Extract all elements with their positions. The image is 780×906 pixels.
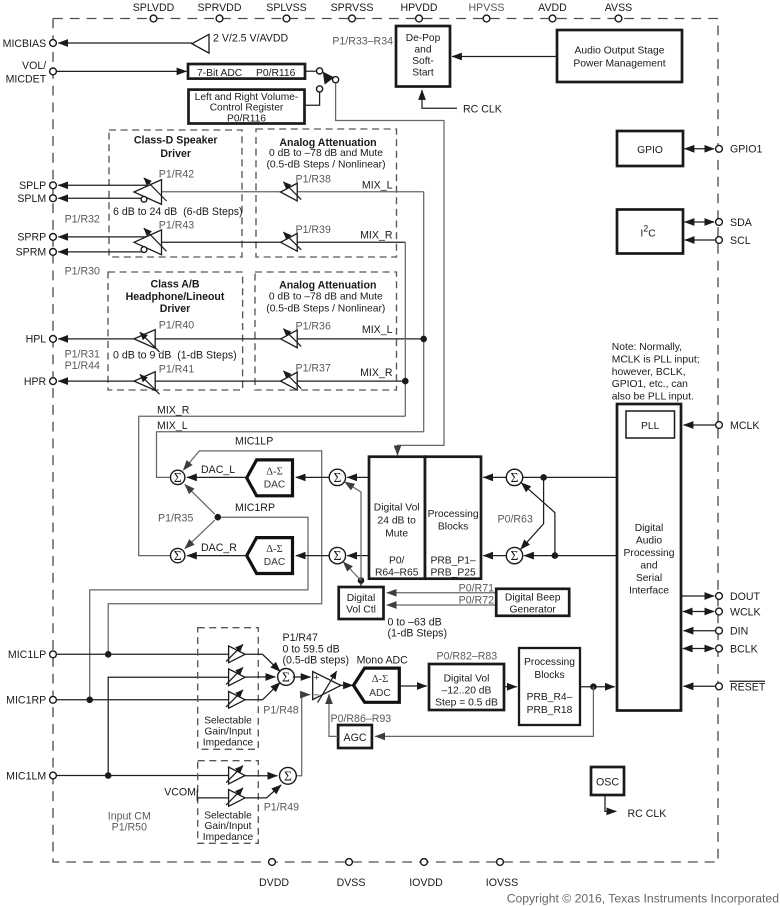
pin MIC1RP — [50, 696, 57, 703]
wire MIC1LM to amp2 — [108, 677, 228, 775]
svg-text:MIX_R: MIX_R — [360, 367, 393, 379]
svg-text:Δ-Σ: Δ-Σ — [266, 466, 283, 477]
section box Selectable Gain/Input Impedance 1 — [198, 628, 259, 750]
pin HPR — [50, 378, 57, 385]
class-d amp P1/R43 — [134, 230, 162, 255]
wire amp2 to sum — [245, 676, 275, 678]
block 7-Bit ADC P0/R116 — [188, 64, 305, 79]
svg-text:Σ: Σ — [174, 548, 182, 563]
wire OSC RC CLK — [605, 795, 616, 811]
svg-text:Σ: Σ — [333, 470, 341, 485]
svg-text:P1/R40: P1/R40 — [159, 320, 194, 332]
wire MIC1RP to left mixer — [185, 484, 215, 514]
pin MIC1LM — [50, 772, 57, 779]
svg-text:MIX_R: MIX_R — [157, 404, 190, 416]
svg-text:P0/R86–R93: P0/R86–R93 — [331, 713, 392, 725]
svg-text:P0/: P0/ — [389, 556, 405, 567]
svg-text:P1/R32: P1/R32 — [65, 214, 100, 226]
svg-text:(1-dB Steps): (1-dB Steps) — [388, 628, 447, 640]
svg-text:Driver: Driver — [160, 148, 191, 160]
svg-text:De-Pop: De-Pop — [406, 33, 441, 44]
svg-text:Audio: Audio — [636, 536, 663, 547]
mic amp 5 — [229, 790, 246, 807]
svg-text:P1/R41: P1/R41 — [159, 364, 194, 376]
svg-text:DIN: DIN — [730, 626, 748, 638]
svg-text:MIC1RP: MIC1RP — [235, 502, 275, 514]
svg-text:Gain/Input: Gain/Input — [204, 821, 251, 832]
wire sum to processing blocks right — [483, 555, 506, 557]
adc delta-sigma Mono ADC — [354, 668, 400, 702]
block I2C — [617, 210, 683, 254]
wire SCL — [685, 239, 716, 241]
mic amp 3 — [229, 691, 246, 708]
wire pga to adc — [341, 684, 353, 686]
pin RESET — [716, 683, 723, 690]
svg-text:Control Register: Control Register — [210, 103, 284, 114]
svg-text:Gain/Input: Gain/Input — [204, 726, 251, 737]
mic sum P1/R47 — [278, 669, 295, 686]
svg-text:P1/R43: P1/R43 — [159, 219, 194, 231]
svg-text:Power Management: Power Management — [573, 59, 665, 70]
svg-text:HPL: HPL — [26, 334, 47, 346]
mic amp 2 — [229, 669, 246, 686]
svg-text:(0.5-dB Steps / Nonlinear): (0.5-dB Steps / Nonlinear) — [266, 160, 385, 171]
svg-text:MIC1LM: MIC1LM — [6, 770, 46, 782]
wire mic sum2 to pga minus — [296, 695, 311, 776]
svg-text:Soft-: Soft- — [412, 56, 434, 67]
wire MICBIAS — [58, 42, 192, 44]
svg-text:SPLVSS: SPLVSS — [266, 2, 306, 14]
svg-text:Impedance: Impedance — [203, 737, 254, 748]
wire beep P0/R72 — [387, 604, 496, 606]
svg-text:P0/R116: P0/R116 — [227, 113, 266, 124]
switch volume source select — [317, 68, 323, 74]
svg-text:DAC: DAC — [264, 557, 286, 568]
dac delta-sigma DAC_R — [247, 538, 293, 574]
attenuator P1/R37 — [281, 372, 298, 390]
outer dashed supply/IO boundary — [53, 19, 718, 863]
svg-text:0 dB to 9 dB (1-dB Steps): 0 dB to 9 dB (1-dB Steps) — [113, 349, 237, 361]
svg-text:Δ-Σ: Δ-Σ — [372, 674, 389, 685]
svg-text:Left and Right Volume-: Left and Right Volume- — [195, 92, 299, 103]
wire AGC to pga — [329, 694, 338, 736]
svg-text:Driver: Driver — [160, 303, 191, 315]
svg-text:P0/R63: P0/R63 — [498, 514, 533, 526]
svg-text:PRB_R18: PRB_R18 — [527, 705, 573, 716]
wire MIC1LP — [57, 653, 229, 655]
wire ADC to switch — [305, 70, 316, 72]
svg-text:DAC_L: DAC_L — [201, 464, 235, 476]
block Audio Output Stage Power Management — [557, 30, 682, 82]
pin MICBIAS — [50, 40, 57, 47]
svg-text:Digital Vol: Digital Vol — [444, 673, 490, 684]
pin HPL — [50, 336, 57, 343]
wire amp5 to sum2 — [245, 785, 281, 798]
svg-text:MICDET: MICDET — [6, 74, 47, 86]
block Digital Vol -12..20 dB — [429, 664, 504, 710]
wire GPIO bidirectional — [685, 148, 715, 150]
wire beep P0/R71 — [387, 592, 496, 594]
svg-text:Selectable: Selectable — [204, 810, 252, 821]
svg-text:Processing: Processing — [428, 509, 479, 520]
svg-text:AVSS: AVSS — [605, 2, 632, 14]
section box Analog Attenuation (headphone) — [255, 272, 397, 390]
svg-text:Serial: Serial — [636, 573, 662, 584]
wire MIX_L to hp input — [155, 338, 424, 340]
svg-text:OSC: OSC — [596, 777, 619, 789]
mixer sum left — [171, 470, 185, 484]
svg-text:SPLP: SPLP — [19, 180, 46, 192]
wire amp1 to sum — [245, 654, 280, 671]
svg-text:Δ-Σ: Δ-Σ — [266, 544, 283, 555]
hp amp P1/R40 — [134, 330, 155, 349]
svg-text:SPLVDD: SPLVDD — [133, 2, 175, 14]
svg-text:SPRM: SPRM — [16, 247, 47, 259]
block De-Pop and Soft-Start — [396, 26, 450, 87]
svg-text:Processing: Processing — [524, 657, 575, 668]
svg-text:DOUT: DOUT — [730, 591, 761, 603]
pin SPRP — [50, 234, 57, 241]
svg-text:Step = 0.5 dB: Step = 0.5 dB — [435, 698, 498, 709]
wire RC CLK to de-pop — [422, 90, 457, 108]
svg-text:AVDD: AVDD — [538, 2, 567, 14]
wire VOL/MICDET to ADC — [57, 70, 187, 72]
svg-text:P1/R36: P1/R36 — [296, 320, 331, 332]
svg-text:Vol Ctl: Vol Ctl — [346, 605, 376, 616]
svg-text:SDA: SDA — [730, 217, 753, 229]
svg-text:Input CM: Input CM — [108, 811, 151, 823]
wire sum to DAC_L — [296, 476, 329, 478]
svg-text:DAC_R: DAC_R — [201, 542, 237, 554]
svg-text:PLL: PLL — [641, 421, 660, 432]
supply pin IOVSS — [497, 859, 504, 866]
wire MIX_L to class-d input — [162, 191, 424, 193]
svg-text:Mono ADC: Mono ADC — [357, 655, 409, 667]
svg-text:BCLK: BCLK — [730, 643, 758, 655]
wire BCLK bidirectional — [683, 648, 714, 650]
svg-text:SCL: SCL — [730, 235, 751, 247]
svg-text:and: and — [415, 45, 432, 56]
svg-text:DAC: DAC — [264, 480, 286, 491]
svg-text:MIX_R: MIX_R — [360, 229, 393, 241]
wire switch to digital vol box — [336, 83, 444, 455]
wire VCOM to amp5 — [197, 797, 228, 799]
svg-text:Headphone/Lineout: Headphone/Lineout — [126, 291, 225, 303]
wire amp3 to sum — [245, 682, 280, 699]
svg-text:–12..20 dB: –12..20 dB — [442, 686, 492, 697]
svg-text:Processing: Processing — [624, 548, 675, 559]
block GPIO — [617, 131, 683, 166]
wire MIX_R to class-d input — [162, 241, 406, 243]
block AGC — [338, 725, 372, 748]
wire SPLM — [58, 197, 145, 199]
svg-text:PRB_R4–: PRB_R4– — [527, 692, 573, 703]
digital sum left — [329, 469, 345, 485]
svg-text:Interface: Interface — [629, 586, 669, 597]
svg-text:Σ: Σ — [511, 470, 519, 485]
svg-text:P1/R49: P1/R49 — [264, 802, 299, 814]
svg-text:Digital: Digital — [347, 593, 376, 604]
dac delta-sigma DAC_L — [247, 460, 293, 496]
wire cross left-to-right — [521, 477, 544, 549]
wire MIX_R vertical — [404, 242, 406, 416]
wire WCLK bidirectional — [683, 611, 714, 613]
supply pin DVSS — [346, 859, 353, 866]
svg-text:Copyright © 2016, Texas Instru: Copyright © 2016, Texas Instruments Inco… — [507, 892, 779, 906]
svg-text:7-Bit ADC: 7-Bit ADC — [197, 68, 243, 79]
block Digital Audio Processing and Serial Interface — [617, 404, 681, 711]
wire DAC_R to right mixer — [187, 555, 248, 557]
svg-text:Σ: Σ — [333, 548, 341, 563]
wire sum to processing blocks left — [483, 476, 506, 478]
svg-text:Blocks: Blocks — [438, 522, 468, 533]
svg-text:Σ: Σ — [282, 669, 290, 684]
wire sum to DAC_R — [296, 555, 329, 557]
mixer sum right — [171, 548, 185, 562]
digital sum right input — [506, 547, 522, 563]
svg-text:Class A/B: Class A/B — [150, 279, 199, 291]
wire vol ctl junction — [360, 581, 362, 588]
buffer amp 2V/2.5V micbias — [192, 34, 209, 53]
svg-text:P0/R82–R83: P0/R82–R83 — [437, 651, 498, 663]
svg-text:P1/R31: P1/R31 — [65, 349, 100, 361]
wire MIX_L vertical — [423, 192, 425, 432]
svg-text:MCLK is PLL input;: MCLK is PLL input; — [612, 355, 700, 366]
wire SPLP — [58, 184, 148, 186]
svg-text:P1/R33–R34: P1/R33–R34 — [332, 36, 393, 48]
mic pga amplifier — [313, 672, 341, 700]
svg-text:RESET: RESET — [730, 681, 766, 693]
section box Class A/B Headphone/Lineout Driver — [108, 272, 243, 390]
section box Analog Attenuation (speaker) — [256, 129, 397, 257]
svg-text:P0/R116: P0/R116 — [256, 68, 296, 79]
svg-text:P1/R48: P1/R48 — [263, 705, 298, 717]
svg-text:VOL/: VOL/ — [22, 60, 46, 72]
supply pin DVDD — [269, 859, 276, 866]
wire cross right-to-left — [521, 483, 555, 556]
wire amp4 to sum2 — [245, 775, 277, 777]
svg-text:GPIO: GPIO — [637, 145, 663, 156]
svg-text:Class-D Speaker: Class-D Speaker — [134, 135, 218, 147]
wire HPR — [58, 380, 134, 382]
svg-text:P0/R71: P0/R71 — [459, 582, 494, 594]
svg-text:HPVSS: HPVSS — [469, 2, 505, 14]
svg-text:GPIO1, etc., can: GPIO1, etc., can — [612, 379, 688, 390]
svg-text:2 V/2.5 V/AVDD: 2 V/2.5 V/AVDD — [213, 33, 289, 45]
svg-text:and: and — [640, 561, 657, 572]
svg-text:PRB_P1–: PRB_P1– — [430, 556, 475, 567]
svg-text:WCLK: WCLK — [730, 606, 761, 618]
svg-text:(0.5-dB steps): (0.5-dB steps) — [283, 654, 350, 666]
wire MIC1RP to right mixer — [185, 520, 215, 549]
block Left and Right Volume-Control Register — [189, 90, 305, 124]
svg-text:Selectable: Selectable — [204, 715, 252, 726]
wire MIX_R to hp input — [155, 380, 405, 382]
svg-text:MIC1LP: MIC1LP — [8, 649, 46, 661]
wire DOUT — [681, 595, 714, 597]
block OSC — [591, 767, 624, 795]
wire digital vol to processing — [504, 686, 517, 688]
svg-text:Note: Normally,: Note: Normally, — [612, 342, 682, 353]
wire MIX_R from mixer — [139, 416, 406, 555]
svg-text:6 dB to 24 dB (6-dB Steps): 6 dB to 24 dB (6-dB Steps) — [113, 206, 243, 218]
wire to AGC — [375, 687, 593, 737]
block PLL — [626, 411, 675, 438]
pin SPLP — [50, 182, 57, 189]
wire SDA bidirectional — [685, 221, 715, 223]
wire digital vol box to sum right — [347, 555, 369, 557]
svg-text:MIX_L: MIX_L — [157, 420, 188, 432]
svg-text:P1/R47: P1/R47 — [283, 632, 318, 644]
svg-text:IOVDD: IOVDD — [409, 877, 443, 889]
mic amp 4 — [229, 767, 246, 784]
svg-text:MIC1LP: MIC1LP — [235, 436, 273, 448]
svg-text:Σ: Σ — [284, 768, 292, 783]
svg-text:SPLM: SPLM — [17, 193, 46, 205]
wire MIX_L from mixer — [157, 432, 424, 478]
pin MIC1LP — [50, 651, 57, 658]
attenuator P1/R38 — [281, 183, 298, 201]
svg-text:VCOM: VCOM — [164, 787, 196, 799]
svg-text:P1/R50: P1/R50 — [112, 822, 147, 834]
wire register to switch — [305, 92, 320, 105]
wire SPRP — [58, 236, 147, 238]
svg-text:+: + — [314, 673, 320, 684]
svg-text:DVSS: DVSS — [337, 877, 366, 889]
svg-text:however, BCLK,: however, BCLK, — [612, 367, 686, 378]
svg-text:Start: Start — [412, 68, 434, 79]
wire vol ctl to sum right — [343, 562, 361, 581]
pin DIN — [716, 627, 723, 634]
hp amp P1/R41 — [134, 372, 155, 391]
svg-text:Mute: Mute — [385, 528, 408, 539]
pin SPRM — [50, 249, 57, 256]
attenuator P1/R36 — [281, 330, 298, 348]
svg-text:Audio Output Stage: Audio Output Stage — [575, 46, 665, 57]
svg-text:P0/R72: P0/R72 — [459, 595, 494, 607]
section box Class-D Speaker Driver — [109, 130, 242, 257]
wire MIC1RP — [57, 699, 229, 701]
svg-text:P1/R44: P1/R44 — [65, 360, 100, 372]
wire vol ctl to sum left — [345, 482, 361, 581]
digital sum right — [329, 547, 345, 563]
svg-text:Digital: Digital — [635, 523, 664, 534]
svg-text:R64–R65: R64–R65 — [375, 568, 419, 579]
wire SPRM — [58, 251, 145, 253]
wire digital vol box to sum left — [347, 476, 369, 478]
svg-text:also be PLL input.: also be PLL input. — [612, 391, 694, 402]
section box Selectable Gain/Input Impedance 2 — [198, 761, 259, 844]
svg-text:P1/R37: P1/R37 — [296, 363, 331, 375]
wire adc to digital vol — [399, 685, 427, 687]
block Processing Blocks PRB_R4-PRB_R18 — [519, 648, 580, 725]
svg-text:P1/R38: P1/R38 — [296, 173, 331, 185]
svg-text:P1/R30: P1/R30 — [65, 265, 100, 277]
svg-text:P1/R42: P1/R42 — [159, 169, 194, 181]
pin WCLK — [716, 608, 723, 615]
svg-text:Blocks: Blocks — [534, 670, 564, 681]
svg-text:0 dB to –78 dB and Mute: 0 dB to –78 dB and Mute — [269, 292, 383, 303]
mic amp 1 — [229, 646, 246, 663]
digital sum left input — [506, 469, 522, 485]
pin SDA — [716, 219, 723, 226]
svg-text:MICBIAS: MICBIAS — [3, 38, 47, 50]
svg-text:RC CLK: RC CLK — [628, 808, 667, 820]
svg-text:Σ: Σ — [511, 548, 519, 563]
wire RESET — [684, 685, 716, 687]
svg-text:MCLK: MCLK — [730, 420, 759, 432]
block Processing Blocks PRB_P1-PRB_P25 — [425, 457, 481, 579]
svg-text:Impedance: Impedance — [203, 832, 254, 843]
mic sum P1/R49 — [280, 767, 297, 784]
svg-text:(0.5-dB Steps / Nonlinear): (0.5-dB Steps / Nonlinear) — [266, 304, 385, 315]
svg-text:Σ: Σ — [174, 470, 182, 485]
wire MIC1RP bypass — [90, 517, 308, 700]
svg-text:AGC: AGC — [344, 732, 367, 744]
svg-text:Digital Beep: Digital Beep — [505, 592, 561, 603]
pin BCLK — [716, 645, 723, 652]
svg-text:0 dB to –78 dB and Mute: 0 dB to –78 dB and Mute — [269, 148, 383, 159]
wire MIC1LP bypass — [108, 451, 322, 654]
svg-text:P1/R39: P1/R39 — [296, 224, 331, 236]
pin SCL — [716, 237, 723, 244]
svg-text:Generator: Generator — [510, 605, 557, 616]
block Digital Vol 24 dB to Mute P0/R64-R65 — [369, 457, 425, 579]
wire power management to de-pop — [452, 56, 557, 58]
svg-text:SPRP: SPRP — [17, 232, 46, 244]
wire serial interface to sum left — [523, 476, 617, 478]
wire MIC1LM — [57, 775, 229, 777]
svg-text:SPRVDD: SPRVDD — [198, 2, 242, 14]
block Digital Beep Generator — [496, 589, 569, 616]
wire processing to serial interface — [580, 686, 615, 688]
svg-text:ADC: ADC — [369, 688, 391, 699]
wire HPL — [58, 338, 134, 340]
pin DOUT — [716, 593, 723, 600]
pin SPLM — [50, 195, 57, 202]
svg-text:HPR: HPR — [24, 376, 47, 388]
class-d amp P1/R42 — [134, 180, 162, 205]
wire DAC_L to left mixer — [187, 476, 248, 478]
svg-text:HPVDD: HPVDD — [400, 2, 437, 14]
svg-text:P1/R35: P1/R35 — [158, 513, 193, 525]
pin VOL/MICDET — [50, 68, 57, 75]
svg-text:DVDD: DVDD — [259, 877, 289, 889]
svg-text:PRB_P25: PRB_P25 — [430, 568, 475, 579]
svg-text:MIX_L: MIX_L — [362, 180, 393, 192]
pin MCLK — [716, 422, 723, 429]
wire MCLK — [684, 424, 716, 426]
supply pin IOVDD — [421, 859, 428, 866]
attenuator P1/R39 — [281, 233, 298, 251]
pin GPIO1 — [716, 145, 723, 152]
svg-text:24 dB to: 24 dB to — [378, 516, 417, 527]
svg-text:GPIO1: GPIO1 — [730, 144, 762, 156]
svg-text:RC CLK: RC CLK — [463, 104, 502, 116]
block Digital Vol Ctl — [339, 587, 384, 619]
svg-text:Digital Vol: Digital Vol — [374, 503, 420, 514]
wire sum to pga — [293, 676, 311, 678]
svg-text:MIX_L: MIX_L — [362, 324, 393, 336]
svg-text:MIC1RP: MIC1RP — [6, 695, 46, 707]
wire DIN — [684, 630, 716, 632]
wire serial interface to sum right — [524, 555, 617, 557]
svg-text:SPRVSS: SPRVSS — [331, 2, 374, 14]
svg-text:IOVSS: IOVSS — [486, 877, 518, 889]
svg-text:Analog Attenuation: Analog Attenuation — [279, 279, 376, 291]
